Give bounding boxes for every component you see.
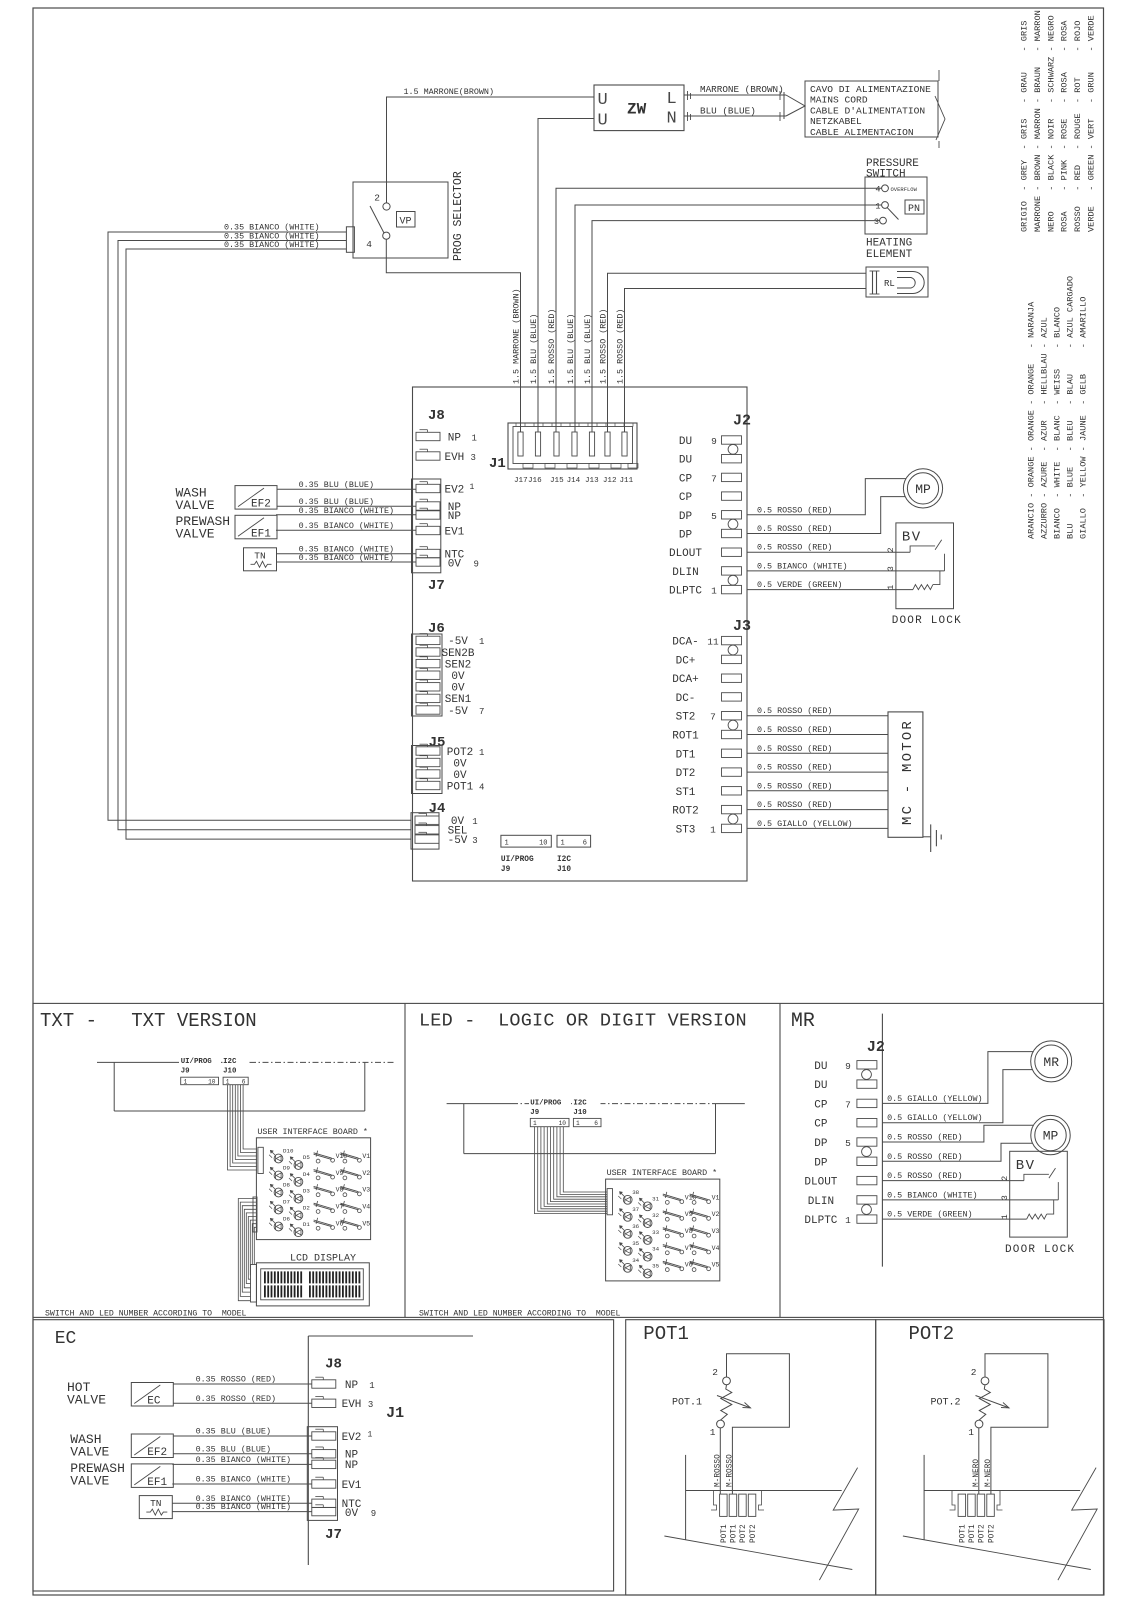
switch V1 [343,1159,347,1163]
svg-text:J7: J7 [428,578,445,594]
svg-text:MARRONE - BROWN - MARRON - BRA: MARRONE - BROWN - MARRON - BRAUN - MARRO… [1033,10,1043,232]
svg-text:1: 1 [886,585,896,590]
svg-text:0V: 0V [451,671,465,683]
svg-text:1.5 BLU (BLUE): 1.5 BLU (BLUE) [566,314,576,384]
switch V6 [665,1268,669,1272]
svg-text:V7: V7 [685,1245,693,1252]
svg-text:35: 35 [632,1240,639,1247]
svg-text:J11: J11 [619,477,633,485]
svg-text:0.5 ROSSO (RED): 0.5 ROSSO (RED) [757,763,832,773]
svg-text:9: 9 [845,1061,851,1072]
svg-text:TN: TN [254,550,265,561]
svg-text:BV: BV [902,529,922,545]
switch V7 [316,1210,320,1214]
prog selector contact 4 [383,232,390,239]
svg-text:DU: DU [679,455,692,467]
svg-text:6: 6 [242,1078,246,1085]
svg-text:BV: BV [1016,1158,1036,1174]
svg-text:V5: V5 [362,1220,370,1227]
svg-text:1: 1 [533,1120,537,1127]
svg-text:0V: 0V [448,559,462,571]
svg-text:NP: NP [345,1380,359,1392]
svg-text:VP: VP [400,217,412,228]
svg-text:USER INTERFACE BOARD *: USER INTERFACE BOARD * [607,1168,718,1178]
prog selector contact 2 [383,203,390,210]
svg-text:DLOUT: DLOUT [669,548,702,560]
svg-text:ST3: ST3 [676,824,696,836]
pressure switch contact 3 [880,217,887,224]
svg-text:1.5 MARRONE(BROWN): 1.5 MARRONE(BROWN) [404,87,494,97]
motor relay MR [1031,1041,1072,1082]
svg-text:1: 1 [472,817,477,827]
svg-text:J10: J10 [573,1109,587,1117]
svg-text:MP: MP [1043,1129,1059,1144]
svg-text:POT2: POT2 [447,747,473,759]
svg-text:DLPTC: DLPTC [804,1215,837,1227]
wire BLU (BLUE) from ZW-N to mains cord [684,115,786,117]
svg-text:0.35 BIANCO (WHITE): 0.35 BIANCO (WHITE) [224,240,320,250]
LED D7 [274,1205,283,1214]
svg-text:DCA-: DCA- [672,637,698,649]
svg-text:1: 1 [711,586,717,597]
svg-text:0.5 GIALLO (YELLOW): 0.5 GIALLO (YELLOW) [757,819,853,829]
J8 pin NP 1 [312,1380,336,1388]
svg-text:0.5 GIALLO (YELLOW): 0.5 GIALLO (YELLOW) [887,1094,983,1104]
connector J7 [412,479,441,573]
connector marks on mains wires [687,91,689,100]
svg-text:3: 3 [874,217,879,227]
J3 keying circles [728,645,738,655]
svg-text:31: 31 [652,1195,659,1202]
wire 0.35 BLU (BLUE) EF2 to EV2 [173,1435,311,1437]
svg-text:AZZURRO - AZURE - AZUR - HE: AZZURRO - AZURE - AZUR - HELLBLAU - AZUL [1040,317,1050,539]
svg-text:POT2: POT2 [909,1323,955,1345]
TXT ribbon cable J10 to UIB [228,1085,257,1170]
svg-text:J2: J2 [867,1039,885,1056]
svg-text:38: 38 [632,1189,639,1196]
svg-text:0.5 ROSSO (RED): 0.5 ROSSO (RED) [887,1133,962,1143]
svg-text:6: 6 [583,839,587,847]
svg-text:3: 3 [472,836,477,846]
svg-text:1: 1 [368,1431,373,1440]
wire 0.35 BLU (BLUE) EF2 to EV2 [277,488,416,490]
svg-text:V6: V6 [685,1262,693,1269]
svg-text:DT1: DT1 [676,749,696,761]
ground [923,836,931,838]
drain pump MP [1031,1115,1070,1154]
svg-text:D6: D6 [283,1216,290,1223]
switch V6 [316,1226,320,1230]
svg-text:1: 1 [576,1120,580,1127]
svg-text:VALVE: VALVE [67,1393,106,1408]
svg-text:UI/PROG: UI/PROG [530,1100,562,1108]
svg-text:0.5 ROSSO (RED): 0.5 ROSSO (RED) [757,800,832,810]
svg-text:1: 1 [369,1381,374,1391]
LED 33 [643,1236,652,1245]
svg-text:DLIN: DLIN [672,567,698,579]
svg-text:V3: V3 [712,1228,720,1235]
svg-text:1.5 ROSSO (RED): 1.5 ROSSO (RED) [599,309,609,384]
svg-text:V1: V1 [712,1194,720,1201]
svg-text:1: 1 [710,1427,716,1438]
svg-text:BLU - BLUE - BLEU - BL: BLU - BLUE - BLEU - BLAU - AZUL CARGADO [1066,276,1076,539]
wire 1.5 ROSSO (RED) heater to J1-J12 [608,273,867,455]
wire pot terminal 2 loop [727,1354,790,1495]
svg-text:0.35 BLU (BLUE): 0.35 BLU (BLUE) [299,480,374,490]
wire 0.5 VERDE (GREEN) J2-DLPTC to BV-1 [747,589,913,591]
svg-text:DC-: DC- [676,693,696,705]
svg-text:10: 10 [208,1078,216,1085]
svg-text:DP: DP [814,1138,828,1150]
LED 31 [643,1202,652,1211]
svg-text:NP: NP [345,1460,359,1472]
svg-text:34: 34 [632,1257,639,1264]
switch V5 [692,1268,696,1272]
LED connector J9 UI/PROG [529,1097,571,1118]
svg-text:SWITCH AND LED NUMBER ACCORDIN: SWITCH AND LED NUMBER ACCORDING TO MODEL [45,1310,247,1319]
wire 0.35 BIANCO (WHITE) TN to NTC [277,553,417,555]
svg-text:5: 5 [711,511,717,522]
svg-text:DC+: DC+ [676,655,696,667]
svg-text:1: 1 [968,1427,974,1438]
svg-text:J8: J8 [428,408,445,424]
svg-text:9: 9 [474,560,479,570]
svg-text:ROSA - PINK - ROSE - ROS: ROSA - PINK - ROSE - ROSA - ROSA [1060,20,1070,232]
svg-text:ZW: ZW [627,101,647,119]
svg-text:U: U [598,112,608,131]
svg-text:J16: J16 [528,477,542,485]
svg-text:10: 10 [539,839,547,847]
svg-text:1: 1 [875,201,880,211]
wire 0.5 GIALLO (YELLOW) J3-ST3 to MC [747,827,888,829]
svg-text:0.5 ROSSO (RED): 0.5 ROSSO (RED) [757,744,832,754]
switch V2 [343,1176,347,1180]
svg-text:V3: V3 [362,1187,370,1194]
prog selector lever [370,206,384,233]
switch V9 [665,1217,669,1221]
LED 34 [623,1263,632,1272]
svg-text:SWITCH: SWITCH [866,169,906,181]
svg-text:0V: 0V [453,770,467,782]
svg-text:TN: TN [150,1498,161,1509]
svg-text:EVH: EVH [444,452,464,464]
svg-text:7: 7 [711,473,717,484]
pressure switch contact 4 overflow [882,185,889,192]
wire 0.5 BIANCO (WHITE) J2-DLIN to BV-3 [882,1199,1058,1201]
LED D1 [294,1228,303,1237]
svg-text:MP: MP [915,482,931,497]
switch V9 [316,1176,320,1180]
connector J10 I2C [557,835,591,847]
wire 1.5 MARRONE (BROWN) from ZW-U to prog selector [387,97,595,203]
svg-text:ROSSO - RED - ROUGE - ROT: ROSSO - RED - ROUGE - ROT - ROJO [1073,21,1083,232]
svg-text:BIANCO - WHITE - BLANC - WE: BIANCO - WHITE - BLANC - WEISS - BLANCO [1053,307,1063,539]
prog selector output connector bar [346,227,354,253]
svg-text:MR: MR [1043,1055,1059,1070]
svg-text:POT2: POT2 [740,1524,748,1543]
svg-text:PROG SELECTOR: PROG SELECTOR [452,171,465,261]
svg-text:M-ROSSO: M-ROSSO [714,1454,722,1487]
svg-text:I2C: I2C [557,856,571,864]
svg-text:33: 33 [652,1229,659,1236]
wire 0.5 ROSSO (RED) J2-DP to MP [882,1125,1033,1142]
svg-text:V1: V1 [362,1153,370,1160]
svg-text:1.5 BLU (BLUE): 1.5 BLU (BLUE) [529,314,539,384]
switch V8 [665,1234,669,1238]
svg-text:POT1: POT1 [731,1524,739,1543]
svg-text:EV2: EV2 [444,484,464,496]
svg-text:NP: NP [448,432,462,444]
svg-text:N: N [667,110,677,129]
svg-text:37: 37 [632,1206,639,1213]
potentiometer POT.1 [723,1377,731,1385]
pressure switch lever [887,208,898,220]
wire 0.5 ROSSO (RED) J3 to MC [747,809,888,811]
svg-text:J10: J10 [223,1068,237,1076]
LED 37 [623,1212,632,1221]
svg-text:DLPTC: DLPTC [669,586,702,598]
svg-text:0.35 BIANCO (WHITE): 0.35 BIANCO (WHITE) [196,1502,292,1512]
svg-text:I2C: I2C [573,1100,587,1108]
svg-text:VALVE: VALVE [70,1474,109,1489]
svg-text:CAVO DI ALIMENTAZIONE: CAVO DI ALIMENTAZIONE [810,84,931,95]
svg-text:HEATING: HEATING [866,238,912,250]
svg-text:7: 7 [479,707,484,717]
wire 0.5 VERDE (GREEN) J2-DLPTC to BV-1 [882,1218,1026,1220]
svg-text:2: 2 [1000,1176,1010,1181]
wire 0.35 BIANCO (WHITE) prog selector to J4--5V [126,249,411,839]
connector J9 UI/PROG [501,835,551,847]
svg-text:3: 3 [471,453,476,463]
TXT display board fragment [97,1061,250,1063]
main board torn edge [685,1455,687,1540]
svg-text:4: 4 [479,782,484,792]
wire 0.5 ROSSO (RED) J3 to MC [747,734,888,736]
svg-text:0.5 GIALLO (YELLOW): 0.5 GIALLO (YELLOW) [887,1113,983,1123]
wire 0.5 BIANCO (WHITE) J2-DLIN to BV-3 [747,570,945,572]
UIB ribbon connector [258,1147,263,1173]
svg-text:TXT - TXT VERSION: TXT - TXT VERSION [40,1010,257,1032]
svg-text:GIALLO - YELLOW - JAUNE - GE: GIALLO - YELLOW - JAUNE - GELB - AMARILL… [1079,297,1089,539]
LED display board fragment [447,1103,512,1105]
svg-text:M-ROSSO: M-ROSSO [726,1454,734,1487]
svg-text:7: 7 [710,712,716,723]
MR board edge [881,1014,883,1267]
svg-text:EV1: EV1 [444,526,464,538]
svg-text:MAINS CORD: MAINS CORD [810,95,868,106]
main control board outline [413,387,748,881]
wire MARRONE (BROWN) from ZW-L to mains cord [684,94,786,96]
svg-text:1: 1 [845,1215,851,1226]
svg-text:D2: D2 [303,1204,310,1211]
mains cord label box [805,81,938,137]
svg-text:0.5 ROSSO (RED): 0.5 ROSSO (RED) [757,725,832,735]
svg-text:2: 2 [374,193,380,204]
svg-text:D1: D1 [303,1221,310,1228]
svg-text:0.35 BIANCO (WHITE): 0.35 BIANCO (WHITE) [299,521,395,531]
svg-text:SEN2: SEN2 [445,659,471,671]
svg-text:V9: V9 [685,1211,693,1218]
switch V5 [343,1226,347,1230]
wire 0.35 BIANCO (WHITE) prog selector to J4-0V [108,232,411,820]
wire 0.5 ROSSO (RED) J3 to MC [747,790,888,792]
svg-text:J5: J5 [429,735,446,751]
LED D2 [294,1211,303,1220]
svg-text:V4: V4 [362,1204,370,1211]
svg-text:0.35 BLU (BLUE): 0.35 BLU (BLUE) [196,1444,271,1454]
wire 1.5 BLU (BLUE) pressure switch 1 to J1-J14 [575,205,882,455]
svg-text:1: 1 [470,483,475,492]
svg-text:0V: 0V [345,1508,359,1520]
svg-text:J4: J4 [429,801,446,817]
svg-text:VERDE - GREEN - VERT - GRU: VERDE - GREEN - VERT - GRUN - VERDE [1087,15,1097,232]
svg-text:0V: 0V [451,683,465,695]
svg-text:MARRONE (BROWN): MARRONE (BROWN) [700,84,784,95]
svg-text:DCA+: DCA+ [672,674,698,686]
svg-text:36: 36 [632,1223,639,1230]
wire 0.35 BIANCO (WHITE) TN to NTC [172,1502,311,1504]
svg-text:35: 35 [652,1263,659,1270]
svg-text:CP: CP [679,473,693,485]
svg-text:1.5 MARRONE (BROWN): 1.5 MARRONE (BROWN) [512,289,522,385]
svg-text:0.35 ROSSO (RED): 0.35 ROSSO (RED) [196,1394,276,1404]
wire 0.5 GIALLO (YELLOW) J2-CP to MR [882,1070,1032,1123]
svg-text:J14: J14 [567,477,581,485]
wire 0.35 ROSSO (RED) EC to NP [173,1383,311,1385]
svg-text:J15: J15 [550,477,564,485]
switch V7 [665,1251,669,1255]
svg-text:0.35 ROSSO (RED): 0.35 ROSSO (RED) [196,1375,276,1385]
wire 0.35 BIANCO (WHITE) EF1 to NP [172,1463,311,1465]
svg-text:0.5 ROSSO (RED): 0.5 ROSSO (RED) [757,781,832,791]
wire 0.5 ROSSO (RED) J2-DP to MP [882,1143,1032,1161]
svg-text:D3: D3 [303,1188,310,1195]
svg-text:D8: D8 [283,1182,290,1189]
TXT connector J10 I2C [223,1055,250,1077]
svg-text:11: 11 [707,637,719,648]
wire pot terminal 2 loop [985,1354,1048,1495]
svg-text:ARANCIO - ORANGE - ORANGE - OR: ARANCIO - ORANGE - ORANGE - ORANGE - NAR… [1027,301,1037,539]
svg-text:0.35 BIANCO (WHITE): 0.35 BIANCO (WHITE) [299,506,395,516]
svg-text:0.5 ROSSO (RED): 0.5 ROSSO (RED) [757,505,832,515]
svg-text:DLOUT: DLOUT [804,1177,837,1189]
wire 0.35 BLU (BLUE) EF2 to NP [173,1453,311,1455]
LED 32 [643,1219,652,1228]
svg-text:DOOR LOCK: DOOR LOCK [892,615,962,627]
svg-text:SEN1: SEN1 [445,694,472,706]
svg-text:D9: D9 [283,1165,290,1172]
svg-text:M-NERO: M-NERO [985,1459,993,1487]
svg-text:DU: DU [814,1061,827,1073]
svg-text:L: L [667,90,677,109]
EC board fragment edge [308,1335,473,1337]
J2 keying circles [728,444,738,454]
svg-text:NERO - BLACK - NOIR - SCH: NERO - BLACK - NOIR - SCHWARZ - NEGRO [1046,15,1056,232]
wire 0.35 BIANCO (WHITE) EF1 to EV1 [276,529,416,531]
motor MC [888,712,923,837]
LCD connector [251,1265,257,1303]
svg-text:USER INTERFACE BOARD *: USER INTERFACE BOARD * [257,1127,368,1137]
svg-text:POT2: POT2 [750,1524,758,1543]
svg-text:6: 6 [594,1120,598,1127]
svg-text:0V: 0V [453,758,467,770]
svg-text:0.5 ROSSO (RED): 0.5 ROSSO (RED) [887,1152,962,1162]
wiper arrow POT.2 [976,1396,1010,1408]
svg-text:1.5 ROSSO (RED): 1.5 ROSSO (RED) [616,309,626,384]
svg-text:7: 7 [845,1099,851,1110]
svg-text:SWITCH AND LED NUMBER ACCORDIN: SWITCH AND LED NUMBER ACCORDING TO MODEL [419,1310,621,1319]
svg-text:UI/PROG: UI/PROG [501,856,534,864]
wire 1.5 BLU (BLUE) pressure switch 3 to J1-J13 [592,221,880,455]
TXT connector J9 UI/PROG [179,1055,221,1077]
svg-text:D5: D5 [303,1154,310,1161]
LED 35 [623,1246,632,1255]
svg-text:5: 5 [845,1138,851,1149]
svg-text:EV2: EV2 [342,1432,362,1444]
svg-text:-5V: -5V [448,706,468,718]
wire 0.35 BIANCO (WHITE) EF1 to NP [276,514,416,516]
svg-text:0.5 ROSSO (RED): 0.5 ROSSO (RED) [887,1171,962,1181]
svg-text:1: 1 [184,1078,188,1085]
svg-text:0.5 VERDE (GREEN): 0.5 VERDE (GREEN) [757,580,842,590]
wire pot terminal 1 [719,1428,721,1495]
svg-text:EVH: EVH [342,1399,362,1411]
wire 0.35 BLU (BLUE) EF2 to NP [277,505,416,507]
svg-text:EF2: EF2 [251,499,271,511]
svg-text:ST1: ST1 [676,787,696,799]
svg-text:0.5 ROSSO (RED): 0.5 ROSSO (RED) [757,524,832,534]
svg-text:0.35 BLU (BLUE): 0.35 BLU (BLUE) [196,1427,271,1437]
svg-text:4: 4 [366,239,372,250]
svg-text:V4: V4 [712,1245,720,1252]
TXT ribbon cable UIB to LCD [238,1199,256,1301]
switch V10 [316,1159,320,1163]
svg-text:J1: J1 [386,1405,404,1422]
connector pins POT1 POT1 POT2 POT2 [958,1494,966,1516]
potentiometer POT.2 [981,1377,989,1385]
wire pot terminal 1 [978,1428,980,1495]
svg-text:DP: DP [679,530,693,542]
wire 0.5 ROSSO (RED) J2-DP to MP [747,479,906,515]
svg-text:DU: DU [814,1080,827,1092]
break lightning bolt [819,1468,858,1581]
svg-text:EF1: EF1 [251,528,271,540]
wire 0.5 ROSSO (RED) J3 to MC [747,752,888,754]
switch VP prog selector [353,182,448,258]
LED 35 [643,1269,652,1278]
svg-text:D4: D4 [303,1171,310,1178]
svg-text:POT2: POT2 [979,1524,987,1543]
pressure switch contact 1 [882,202,889,209]
svg-text:MR: MR [791,1010,815,1033]
svg-text:32: 32 [652,1212,659,1219]
svg-text:CABLE ALIMENTACION: CABLE ALIMENTACION [810,127,914,138]
svg-text:DT2: DT2 [676,768,696,780]
svg-text:POT2: POT2 [988,1524,996,1543]
svg-text:2: 2 [971,1367,977,1378]
svg-text:V8: V8 [685,1228,693,1235]
svg-text:0.5 VERDE (GREEN): 0.5 VERDE (GREEN) [887,1210,972,1220]
EC connector J7 [307,1427,337,1521]
LED 38 [623,1195,632,1204]
svg-text:POT1: POT1 [721,1524,729,1543]
svg-text:EF1: EF1 [147,1477,167,1489]
svg-text:ST2: ST2 [676,712,696,724]
LED D5 [294,1161,303,1170]
svg-text:CP: CP [679,492,693,504]
svg-text:EF2: EF2 [147,1447,167,1459]
svg-text:3: 3 [886,566,896,571]
